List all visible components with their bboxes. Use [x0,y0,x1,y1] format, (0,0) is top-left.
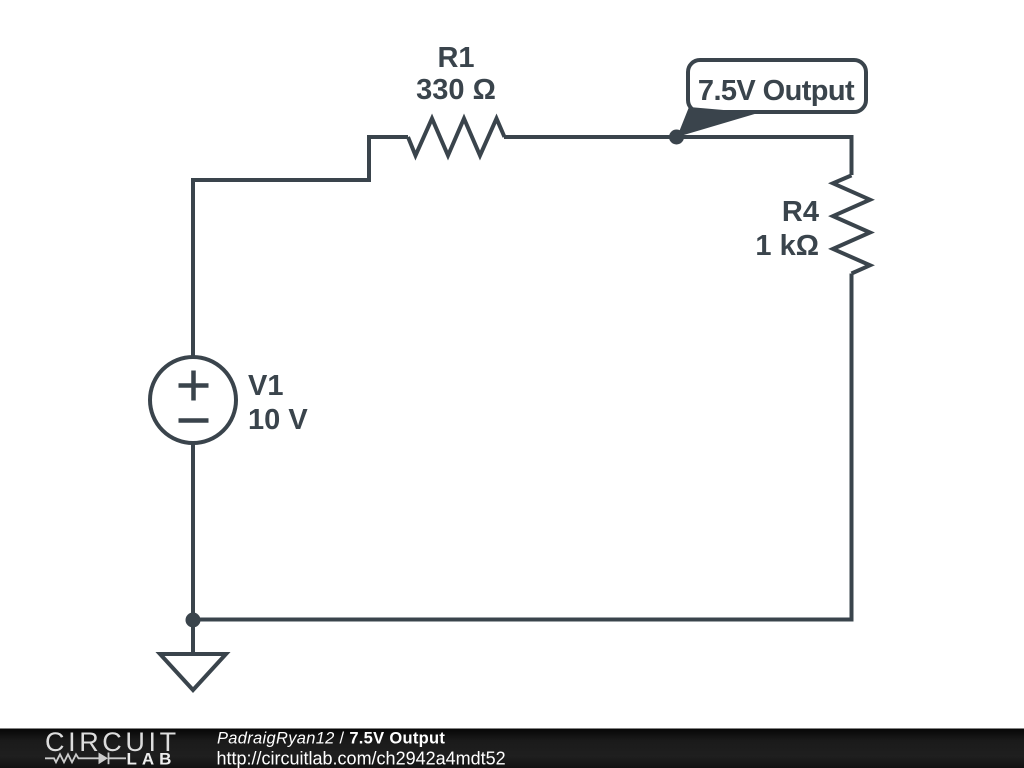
node: ground junction dot [186,613,201,628]
ground symbol [160,654,226,690]
wire: ground stub [191,620,195,654]
footer bar [0,729,1024,768]
resistor R4 zigzag [833,175,870,273]
resistor R1 zigzag [408,119,505,156]
svg-text:7.5V Output: 7.5V Output [698,75,855,107]
svg-text:http://circuitlab.com/ch2942a4: http://circuitlab.com/ch2942a4mdt52 [217,749,506,768]
voltage source V1 circle [150,357,236,443]
wire: R4 down right rail [850,274,854,622]
wire: R1 to output node [504,135,677,139]
CircuitLab logo squiggle resistor-diode [45,753,126,765]
svg-text:PadraigRyan12 / 7.5V Output: PadraigRyan12 / 7.5V Output [217,730,445,748]
wire: bottom rail [193,618,854,622]
wire: output node to top-right corner [677,137,852,175]
svg-text:R4: R4 [782,196,819,228]
svg-text:1 kΩ: 1 kΩ [755,230,819,262]
wire: V1 bottom lead [191,443,195,621]
V1 plus sign [179,371,209,401]
wire: top-left horizontal rail [191,178,369,182]
svg-text:R1: R1 [437,42,474,74]
net flag: 7.5V Output callout box [688,60,866,112]
svg-text:V1: V1 [248,370,283,402]
wire: into R1 left lead [367,135,408,139]
wire: jog up to resistor row [367,137,371,182]
svg-text:330 Ω: 330 Ω [416,74,496,106]
node: 7.5V output junction dot [669,130,684,145]
svg-text:10 V: 10 V [248,404,308,436]
wire: V1 top lead up left rail [191,180,195,358]
V1 minus sign [179,418,209,423]
svg-text:LAB: LAB [127,750,177,768]
net flag tail [677,107,758,137]
